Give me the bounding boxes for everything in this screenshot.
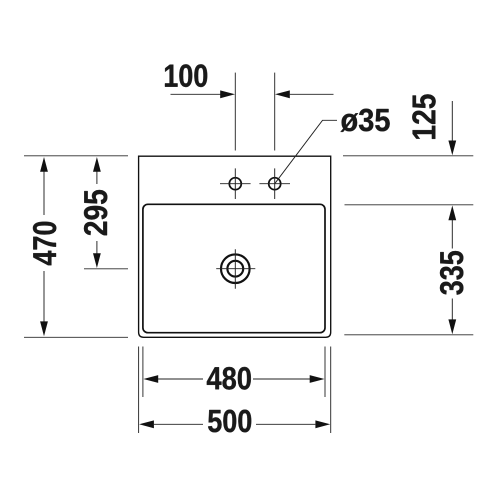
dim 100 arrow left [220, 90, 235, 98]
dim 100 arrow right [275, 90, 290, 98]
dim 335 line lower [451, 299, 453, 320]
dim 480 extension line right [324, 347, 326, 398]
dim 335 extension line top [345, 204, 474, 206]
tap hole left circle [229, 178, 241, 190]
dim 470 arrow down [40, 321, 48, 336]
dim 500 label [208, 410, 251, 433]
dim 500 extension line right [330, 347, 332, 434]
dim 295 extension line bottom [84, 268, 128, 270]
dim 470 line upper [43, 172, 45, 216]
dim 335 extension line bottom [344, 334, 473, 336]
dim 480 label [207, 367, 251, 390]
dim 335 arrow down [448, 319, 456, 334]
dim 500 arrow left [139, 420, 154, 428]
dim 500 extension line left [138, 347, 140, 434]
dim 295 label [84, 190, 107, 235]
dim 100 extension line right [274, 73, 276, 151]
dim 100 extension line left [234, 73, 236, 151]
dim 335 label [440, 251, 463, 295]
dim 100 label [165, 64, 207, 87]
basin outer rim [139, 156, 331, 337]
dim 335 line upper [451, 220, 453, 249]
dim 125 label [412, 94, 435, 138]
drain outer circle [221, 254, 250, 283]
dim 125 extension line [343, 155, 473, 157]
dim 295 line lower [96, 241, 98, 254]
dim 335 arrow up [448, 206, 456, 221]
dim 100 line right [290, 93, 334, 95]
dim 500 line left [154, 423, 203, 425]
dim 480 arrow right [310, 375, 325, 383]
dim 470 line lower [43, 271, 45, 322]
dim 470 extension line bottom [24, 336, 128, 338]
tap hole right crosshair [259, 168, 290, 199]
drain crosshair [216, 249, 255, 288]
dim 295 arrow up [93, 157, 101, 172]
dim 100 line left [171, 93, 222, 95]
basin bowl [143, 204, 325, 332]
tap hole left crosshair [220, 168, 251, 199]
dim 500 line right [256, 423, 315, 425]
dim 480 extension line left [142, 347, 144, 398]
dim 295 line upper [96, 172, 98, 185]
dim 480 arrow left [143, 375, 158, 383]
tap hole right circle [269, 178, 281, 190]
dim 470 extension line top [24, 155, 128, 157]
dim 470 arrow up [40, 157, 48, 172]
leader line for tap hole diameter [275, 120, 337, 183]
dim 470 label [33, 222, 56, 265]
dim 125 line [451, 101, 453, 141]
drain inner circle [227, 261, 243, 277]
dim 480 line left [158, 378, 203, 380]
dim 480 line right [253, 378, 310, 380]
dim 125 arrow [448, 141, 456, 156]
dim 500 arrow right [315, 420, 330, 428]
tap hole diameter label [341, 109, 390, 132]
dim 295 arrow down [93, 253, 101, 268]
